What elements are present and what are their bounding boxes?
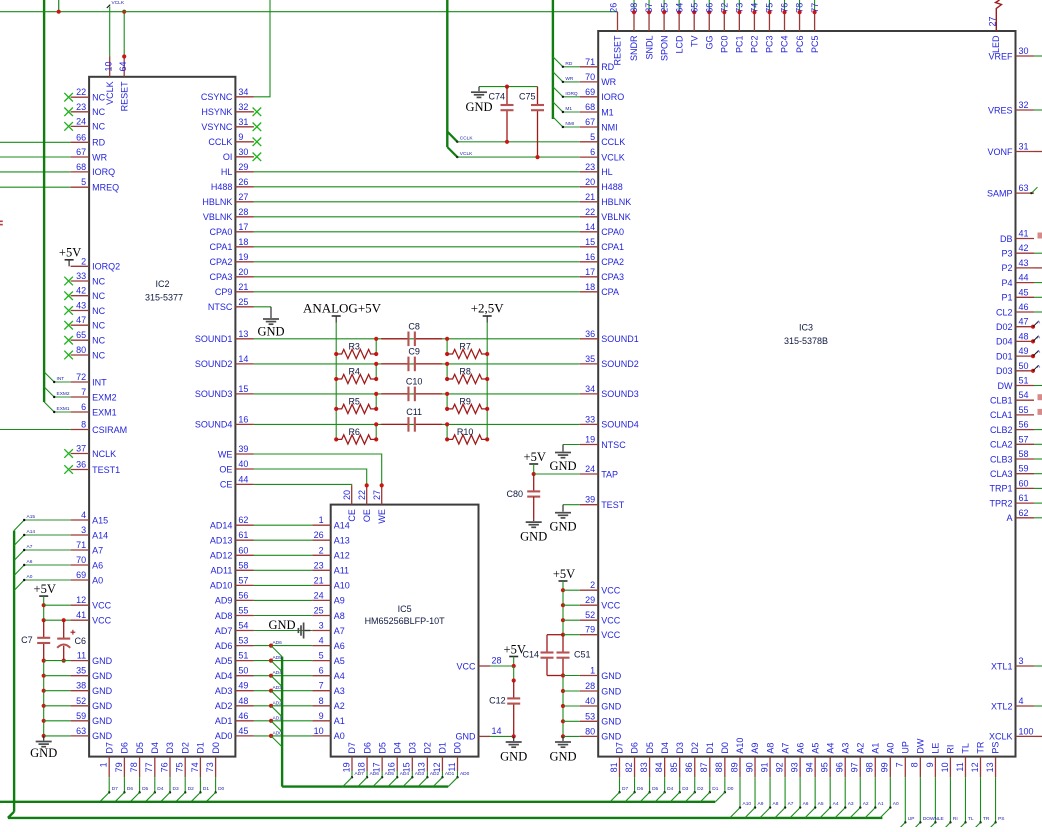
svg-text:30: 30 <box>1019 46 1029 56</box>
svg-text:77: 77 <box>144 762 154 772</box>
svg-text:LCD: LCD <box>674 35 684 54</box>
svg-text:A10: A10 <box>743 801 752 807</box>
svg-text:63: 63 <box>76 726 86 736</box>
svg-text:40: 40 <box>238 459 248 469</box>
svg-text:R5: R5 <box>348 396 360 406</box>
svg-text:D0: D0 <box>211 742 221 754</box>
svg-text:41: 41 <box>76 610 86 620</box>
svg-text:16: 16 <box>238 414 248 424</box>
svg-text:49: 49 <box>238 681 248 691</box>
svg-text:D3: D3 <box>165 742 175 754</box>
svg-text:10: 10 <box>104 61 114 71</box>
svg-text:AD1: AD1 <box>215 716 233 726</box>
svg-text:92: 92 <box>774 762 784 772</box>
svg-text:59: 59 <box>1019 464 1029 474</box>
svg-text:GND: GND <box>257 325 284 339</box>
svg-text:HBLNK: HBLNK <box>202 197 232 207</box>
svg-text:AD12: AD12 <box>210 551 233 561</box>
svg-text:EXM1: EXM1 <box>92 407 117 417</box>
svg-text:PC2: PC2 <box>750 36 760 54</box>
svg-text:CE: CE <box>220 480 233 490</box>
svg-text:NC: NC <box>92 321 105 331</box>
svg-text:PC6: PC6 <box>795 36 805 54</box>
svg-text:26: 26 <box>609 3 619 13</box>
svg-text:37: 37 <box>644 3 654 13</box>
svg-text:C6: C6 <box>75 636 87 646</box>
svg-text:A0: A0 <box>886 743 896 754</box>
svg-text:69: 69 <box>585 87 595 97</box>
svg-text:C10: C10 <box>406 376 423 386</box>
svg-text:CCLK: CCLK <box>601 137 625 147</box>
svg-text:55: 55 <box>238 606 248 616</box>
svg-text:D2: D2 <box>180 742 190 754</box>
svg-text:4: 4 <box>81 510 86 520</box>
svg-text:A2: A2 <box>334 701 345 711</box>
svg-text:PS: PS <box>998 816 1004 822</box>
svg-text:D3: D3 <box>407 742 417 754</box>
svg-text:MREQ: MREQ <box>92 183 119 193</box>
svg-text:RESET: RESET <box>613 35 623 66</box>
svg-text:H488: H488 <box>601 182 623 192</box>
svg-text:CCLK: CCLK <box>460 136 474 142</box>
svg-text:C51: C51 <box>574 650 591 660</box>
svg-text:50: 50 <box>1019 361 1029 371</box>
svg-text:PC3: PC3 <box>765 36 775 54</box>
svg-text:GND: GND <box>549 519 576 533</box>
svg-text:72: 72 <box>76 372 86 382</box>
svg-text:D4: D4 <box>667 786 673 792</box>
svg-text:A7: A7 <box>780 743 790 754</box>
svg-text:5: 5 <box>319 651 324 661</box>
svg-text:HM65256BLFP-10T: HM65256BLFP-10T <box>365 616 446 626</box>
svg-text:61: 61 <box>1019 493 1029 503</box>
svg-text:48: 48 <box>1019 331 1029 341</box>
svg-text:95: 95 <box>820 762 830 772</box>
svg-text:A7: A7 <box>334 626 345 636</box>
svg-text:78: 78 <box>129 762 139 772</box>
svg-text:20: 20 <box>585 177 595 187</box>
svg-text:73: 73 <box>205 762 215 772</box>
svg-text:25: 25 <box>659 3 669 13</box>
svg-text:3: 3 <box>81 525 86 535</box>
svg-text:63: 63 <box>1019 183 1029 193</box>
svg-text:SOUND1: SOUND1 <box>195 334 233 344</box>
svg-text:50: 50 <box>238 666 248 676</box>
svg-text:A4: A4 <box>825 743 835 754</box>
svg-text:IORQ2: IORQ2 <box>92 262 120 272</box>
svg-text:PC0: PC0 <box>720 36 730 54</box>
svg-text:AD14: AD14 <box>210 521 233 531</box>
svg-text:84: 84 <box>654 762 664 772</box>
svg-text:C74: C74 <box>488 92 505 102</box>
svg-text:30: 30 <box>238 147 248 157</box>
svg-text:D6: D6 <box>120 742 130 754</box>
svg-text:R10: R10 <box>457 427 474 437</box>
svg-text:CPA1: CPA1 <box>601 242 624 252</box>
svg-text:79: 79 <box>585 625 595 635</box>
svg-text:SPON: SPON <box>659 36 669 62</box>
svg-text:7: 7 <box>81 387 86 397</box>
svg-text:21: 21 <box>585 192 595 202</box>
svg-text:27: 27 <box>987 16 997 26</box>
svg-text:NCLK: NCLK <box>92 449 116 459</box>
svg-text:6: 6 <box>590 147 595 157</box>
svg-text:CPA2: CPA2 <box>601 257 624 267</box>
svg-text:36: 36 <box>585 329 595 339</box>
svg-text:5: 5 <box>590 132 595 142</box>
svg-text:75: 75 <box>765 3 775 13</box>
svg-text:R9: R9 <box>459 396 471 406</box>
svg-text:D7: D7 <box>347 742 357 754</box>
svg-text:16: 16 <box>387 762 397 772</box>
svg-text:38: 38 <box>629 3 639 13</box>
svg-text:31: 31 <box>1019 142 1029 152</box>
svg-text:NMI: NMI <box>565 121 574 127</box>
svg-text:GND: GND <box>465 100 492 114</box>
svg-text:WE: WE <box>218 449 233 459</box>
svg-text:46: 46 <box>1019 302 1029 312</box>
svg-text:D3: D3 <box>682 786 688 792</box>
svg-text:29: 29 <box>238 162 248 172</box>
svg-text:51: 51 <box>238 651 248 661</box>
svg-text:AD6: AD6 <box>273 640 283 646</box>
svg-text:A7: A7 <box>27 544 33 550</box>
svg-text:GND: GND <box>601 686 622 696</box>
svg-text:33: 33 <box>585 414 595 424</box>
svg-text:VONF: VONF <box>987 147 1013 157</box>
svg-text:CP9: CP9 <box>215 287 233 297</box>
svg-text:CLA3: CLA3 <box>990 469 1013 479</box>
svg-text:GND: GND <box>520 530 547 544</box>
svg-text:CCLK: CCLK <box>208 137 232 147</box>
svg-text:AD0: AD0 <box>460 771 470 777</box>
svg-text:94: 94 <box>805 762 815 772</box>
svg-text:IC5: IC5 <box>398 604 412 614</box>
svg-text:43: 43 <box>76 301 86 311</box>
svg-text:90: 90 <box>744 762 754 772</box>
svg-text:GND: GND <box>549 750 576 764</box>
svg-text:A7: A7 <box>788 801 794 807</box>
svg-text:CLB1: CLB1 <box>990 396 1013 406</box>
svg-text:18: 18 <box>356 762 366 772</box>
svg-text:A13: A13 <box>334 536 350 546</box>
svg-text:24: 24 <box>76 116 86 126</box>
svg-text:17: 17 <box>238 222 248 232</box>
svg-text:A5: A5 <box>334 656 345 666</box>
svg-text:64: 64 <box>118 61 128 71</box>
svg-text:CPA0: CPA0 <box>601 227 624 237</box>
svg-text:TEST1: TEST1 <box>92 465 120 475</box>
svg-text:GND: GND <box>549 459 576 473</box>
svg-text:28: 28 <box>585 681 595 691</box>
svg-text:GND: GND <box>601 701 622 711</box>
svg-text:99: 99 <box>880 762 890 772</box>
svg-text:79: 79 <box>114 762 124 772</box>
svg-text:CSIRAM: CSIRAM <box>92 425 127 435</box>
svg-text:A6: A6 <box>27 559 33 565</box>
svg-text:A1: A1 <box>334 716 345 726</box>
svg-text:EXM2: EXM2 <box>57 391 70 397</box>
svg-text:26: 26 <box>238 177 248 187</box>
svg-text:OE: OE <box>362 509 372 522</box>
svg-text:AD11: AD11 <box>211 566 233 576</box>
svg-text:77: 77 <box>810 3 820 13</box>
svg-text:NTSC: NTSC <box>601 440 626 450</box>
svg-text:AD6: AD6 <box>215 641 233 651</box>
svg-text:6: 6 <box>81 402 86 412</box>
svg-text:A5: A5 <box>810 743 820 754</box>
svg-text:D5: D5 <box>652 786 658 792</box>
svg-text:C9: C9 <box>408 346 420 356</box>
svg-text:39: 39 <box>585 495 595 505</box>
svg-text:28: 28 <box>492 656 502 666</box>
svg-text:A9: A9 <box>750 743 760 754</box>
svg-text:A3: A3 <box>848 801 854 807</box>
svg-text:98: 98 <box>865 762 875 772</box>
svg-text:86: 86 <box>684 762 694 772</box>
svg-text:VCLK: VCLK <box>460 151 473 157</box>
svg-text:TR: TR <box>983 816 990 822</box>
svg-text:D02: D02 <box>996 322 1013 332</box>
svg-text:AD4: AD4 <box>273 670 283 676</box>
svg-text:XCLK: XCLK <box>989 732 1013 742</box>
svg-text:29: 29 <box>585 595 595 605</box>
svg-text:VRES: VRES <box>988 105 1013 115</box>
svg-text:SOUND2: SOUND2 <box>195 359 233 369</box>
svg-text:OI: OI <box>223 152 233 162</box>
svg-text:SNDL: SNDL <box>644 36 654 60</box>
svg-text:C12: C12 <box>489 696 506 706</box>
svg-text:AD7: AD7 <box>215 626 233 636</box>
svg-text:VSYNC: VSYNC <box>201 122 233 132</box>
svg-text:P4: P4 <box>1001 278 1012 288</box>
svg-text:11: 11 <box>77 651 86 661</box>
svg-text:D1: D1 <box>196 742 206 754</box>
svg-text:15: 15 <box>585 237 595 247</box>
svg-text:88: 88 <box>714 762 724 772</box>
svg-text:CL2: CL2 <box>996 307 1013 317</box>
svg-text:A15: A15 <box>27 514 36 520</box>
svg-text:81: 81 <box>609 762 619 772</box>
svg-text:NC: NC <box>92 306 105 316</box>
svg-text:TV: TV <box>689 36 699 48</box>
svg-text:16: 16 <box>585 252 595 262</box>
svg-text:52: 52 <box>76 696 86 706</box>
svg-text:57: 57 <box>238 575 248 585</box>
svg-text:D0: D0 <box>218 786 224 792</box>
svg-text:14: 14 <box>238 354 248 364</box>
svg-text:315-5377: 315-5377 <box>145 293 183 303</box>
svg-text:NC: NC <box>92 107 105 117</box>
svg-text:58: 58 <box>238 560 248 570</box>
svg-text:72: 72 <box>720 3 730 13</box>
svg-text:LE: LE <box>938 816 944 822</box>
svg-text:D4: D4 <box>150 742 160 754</box>
svg-text:D6: D6 <box>630 742 640 754</box>
svg-text:WR: WR <box>92 152 107 162</box>
svg-text:65: 65 <box>689 3 699 13</box>
svg-text:CLA1: CLA1 <box>990 410 1013 420</box>
svg-text:GND: GND <box>601 671 622 681</box>
svg-text:A1: A1 <box>878 801 884 807</box>
svg-text:74: 74 <box>190 762 200 772</box>
svg-text:A8: A8 <box>334 611 345 621</box>
svg-text:51: 51 <box>1019 376 1029 386</box>
svg-text:36: 36 <box>76 460 86 470</box>
svg-text:69: 69 <box>76 570 86 580</box>
svg-text:A9: A9 <box>334 596 345 606</box>
svg-text:11: 11 <box>447 762 457 771</box>
svg-text:D0: D0 <box>453 742 463 754</box>
svg-text:+5V: +5V <box>553 567 575 581</box>
svg-text:38: 38 <box>76 681 86 691</box>
svg-text:CPA1: CPA1 <box>210 242 233 252</box>
svg-text:76: 76 <box>159 762 169 772</box>
svg-text:A1: A1 <box>870 743 880 754</box>
svg-text:DOWN: DOWN <box>923 816 939 822</box>
svg-text:VREF: VREF <box>988 51 1013 61</box>
svg-text:CPA: CPA <box>601 287 619 297</box>
svg-text:D5: D5 <box>377 742 387 754</box>
svg-text:15: 15 <box>402 762 412 772</box>
svg-text:RI: RI <box>946 745 956 754</box>
svg-text:A6: A6 <box>795 743 805 754</box>
svg-text:48: 48 <box>238 696 248 706</box>
svg-text:VCC: VCC <box>92 616 112 626</box>
svg-text:+2,5V: +2,5V <box>471 301 505 316</box>
svg-text:13: 13 <box>238 329 248 339</box>
svg-text:71: 71 <box>76 540 86 550</box>
svg-text:19: 19 <box>238 252 248 262</box>
svg-text:D1: D1 <box>705 742 715 754</box>
svg-text:CPA0: CPA0 <box>210 227 233 237</box>
svg-text:GND: GND <box>601 717 622 727</box>
svg-text:RD: RD <box>92 138 105 148</box>
svg-text:62: 62 <box>1019 508 1029 518</box>
svg-text:A2: A2 <box>855 743 865 754</box>
svg-text:18: 18 <box>238 237 248 247</box>
svg-text:41: 41 <box>1019 229 1029 239</box>
svg-text:GND: GND <box>92 731 113 741</box>
svg-text:A14: A14 <box>92 530 108 540</box>
svg-text:XTL2: XTL2 <box>991 701 1013 711</box>
svg-text:14: 14 <box>492 726 502 736</box>
svg-text:HBLNK: HBLNK <box>601 197 631 207</box>
svg-text:1: 1 <box>319 515 324 525</box>
svg-text:1: 1 <box>590 666 595 676</box>
svg-text:10: 10 <box>314 726 324 736</box>
svg-text:42: 42 <box>1019 243 1029 253</box>
svg-text:TAP: TAP <box>601 469 618 479</box>
svg-text:PC5: PC5 <box>810 36 820 54</box>
svg-text:A5: A5 <box>818 801 824 807</box>
svg-text:60: 60 <box>1019 478 1029 488</box>
svg-text:A4: A4 <box>833 801 839 807</box>
svg-text:A0: A0 <box>334 731 345 741</box>
svg-text:6: 6 <box>319 666 324 676</box>
svg-text:22: 22 <box>357 490 367 500</box>
svg-text:17: 17 <box>372 762 382 772</box>
svg-text:21: 21 <box>314 575 324 585</box>
svg-text:12: 12 <box>76 595 86 605</box>
svg-text:IORQ: IORQ <box>565 91 578 97</box>
svg-text:44: 44 <box>238 474 248 484</box>
svg-text:UP: UP <box>901 741 911 754</box>
svg-text:CPA3: CPA3 <box>601 272 624 282</box>
svg-text:43: 43 <box>1019 258 1029 268</box>
svg-text:R3: R3 <box>348 342 360 352</box>
svg-text:WR: WR <box>601 77 616 87</box>
svg-text:SOUND1: SOUND1 <box>601 334 639 344</box>
svg-text:A0: A0 <box>27 574 33 580</box>
svg-text:D3: D3 <box>173 786 179 792</box>
svg-text:97: 97 <box>850 762 860 772</box>
svg-text:P1: P1 <box>1001 293 1012 303</box>
svg-text:OE: OE <box>219 464 232 474</box>
svg-text:PC1: PC1 <box>735 36 745 54</box>
svg-text:AD8: AD8 <box>215 611 233 621</box>
svg-text:D4: D4 <box>660 742 670 754</box>
svg-text:SOUND3: SOUND3 <box>195 389 233 399</box>
svg-text:AD9: AD9 <box>215 596 233 606</box>
svg-text:70: 70 <box>585 72 595 82</box>
svg-text:62: 62 <box>238 515 248 525</box>
svg-text:40: 40 <box>585 696 595 706</box>
svg-text:TL: TL <box>968 816 974 822</box>
svg-text:23: 23 <box>314 560 324 570</box>
svg-text:TR: TR <box>976 741 986 753</box>
svg-text:VCC: VCC <box>601 616 621 626</box>
svg-text:78: 78 <box>795 3 805 13</box>
svg-text:SOUND4: SOUND4 <box>195 420 233 430</box>
svg-text:EXM2: EXM2 <box>92 392 117 402</box>
svg-text:GND: GND <box>92 671 113 681</box>
svg-text:A9: A9 <box>758 801 764 807</box>
svg-text:24: 24 <box>585 464 595 474</box>
svg-text:HL: HL <box>601 167 613 177</box>
svg-text:A12: A12 <box>334 551 350 561</box>
svg-text:A8: A8 <box>773 801 779 807</box>
svg-text:+5V: +5V <box>524 450 546 464</box>
svg-text:D5: D5 <box>142 786 148 792</box>
svg-text:IC2: IC2 <box>155 279 169 289</box>
svg-text:C11: C11 <box>406 407 422 417</box>
svg-text:27: 27 <box>372 490 382 500</box>
svg-text:SOUND3: SOUND3 <box>601 389 639 399</box>
svg-text:GND: GND <box>92 686 113 696</box>
svg-text:D2: D2 <box>423 742 433 754</box>
svg-text:8: 8 <box>81 420 86 430</box>
svg-text:17: 17 <box>585 267 595 277</box>
svg-text:CLB3: CLB3 <box>990 454 1013 464</box>
svg-text:AD5: AD5 <box>273 655 283 661</box>
svg-text:56: 56 <box>238 590 248 600</box>
svg-text:RI: RI <box>953 816 958 822</box>
svg-text:AD2: AD2 <box>215 701 233 711</box>
svg-text:A15: A15 <box>92 515 108 525</box>
svg-text:34: 34 <box>585 384 595 394</box>
svg-text:70: 70 <box>76 555 86 565</box>
svg-text:47: 47 <box>1019 317 1029 327</box>
svg-text:VBLNK: VBLNK <box>601 212 631 222</box>
svg-text:INT: INT <box>57 376 65 382</box>
svg-text:CPA3: CPA3 <box>210 272 233 282</box>
svg-text:54: 54 <box>238 621 248 631</box>
svg-text:56: 56 <box>1019 420 1029 430</box>
svg-text:A14: A14 <box>27 529 36 535</box>
svg-text:D6: D6 <box>362 742 372 754</box>
svg-text:23: 23 <box>76 102 86 112</box>
